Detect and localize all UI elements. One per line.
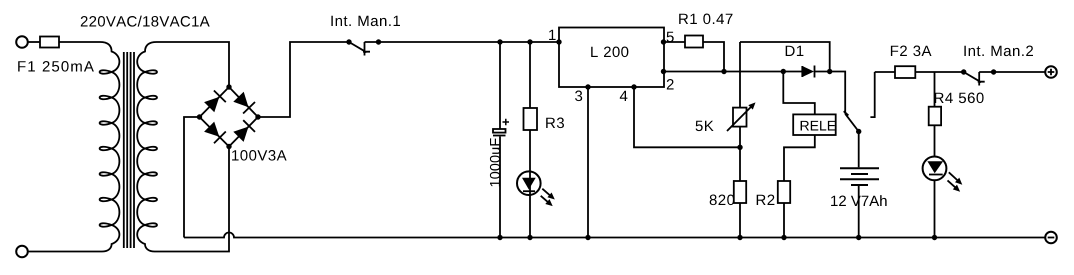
wire + transformer primary winding xyxy=(28,42,119,252)
resistor 820 xyxy=(734,181,746,203)
pin 3 xyxy=(585,84,590,89)
node D1 cathode xyxy=(827,69,832,74)
wire battery to rail xyxy=(858,185,860,238)
wire pot branch vertical xyxy=(739,42,741,147)
label Int. Man.2 xyxy=(964,46,1033,57)
transformer core xyxy=(124,52,134,248)
LED DL1 xyxy=(517,171,541,195)
wire capacitor branch xyxy=(499,42,501,129)
battery 12V7Ah xyxy=(840,168,879,185)
label R2 xyxy=(757,195,775,206)
relay switch blade xyxy=(844,111,859,131)
wire pin4 down and right xyxy=(634,87,740,147)
label F1 250mA xyxy=(18,61,94,72)
wire to battery xyxy=(858,132,860,168)
node R4 branch bottom xyxy=(932,235,937,240)
node relay common xyxy=(856,129,861,134)
label R1 0.47 xyxy=(679,14,732,25)
wire R3 branch xyxy=(529,42,531,238)
resistor R2 xyxy=(778,181,790,203)
output terminal + xyxy=(1045,66,1057,78)
relay switch right contact xyxy=(870,72,874,117)
label 5K xyxy=(696,121,714,131)
wire R4 to LED xyxy=(934,125,936,156)
node R2 bottom xyxy=(781,235,786,240)
bridge rectifier diamond wires xyxy=(200,87,259,147)
node bridge left xyxy=(197,114,202,119)
bridge diode 4 (bottom-right) xyxy=(233,127,248,142)
node R3 bottom xyxy=(527,235,532,240)
LED DL1 arrows xyxy=(541,189,552,204)
pin 5 xyxy=(661,39,666,44)
node bridge bottom xyxy=(226,144,231,149)
wire 820 branch xyxy=(739,147,741,237)
input terminal bottom xyxy=(16,246,28,258)
switch Int. Man.2 xyxy=(961,69,966,74)
pin 4 xyxy=(631,84,636,89)
node R3 top xyxy=(527,39,532,44)
label R3 xyxy=(546,118,564,129)
wire pin3 down to rail xyxy=(587,87,589,238)
node battery bottom xyxy=(856,235,861,240)
label F2 3A xyxy=(891,46,932,57)
label 1000uF (rotated) xyxy=(490,138,500,186)
potentiometer 5K xyxy=(733,108,747,127)
wire R1 to pin2 node xyxy=(703,42,724,72)
wire relay coil top xyxy=(783,72,815,115)
regulator U1 L200 xyxy=(559,28,664,88)
label D1 xyxy=(786,46,804,56)
label 100V3A xyxy=(232,150,287,161)
wire D1 cathode to relay switch left contact xyxy=(830,72,846,114)
wire top rail to L200 xyxy=(365,41,560,43)
wire pin2 line xyxy=(664,71,784,73)
pin 1 xyxy=(556,39,561,44)
node bridge right xyxy=(255,114,260,119)
label R4 560 xyxy=(935,93,984,104)
node 820 bottom xyxy=(737,235,742,240)
LED DL2 xyxy=(923,157,947,181)
fuse F2 xyxy=(895,66,915,78)
negative bottom rail with hop over AC wire xyxy=(184,233,1045,238)
capacitor C1 1000uF plates xyxy=(493,129,506,133)
node capacitor top xyxy=(497,39,502,44)
fuse F1 xyxy=(40,37,59,48)
wire to + terminal xyxy=(979,71,1045,73)
output terminal - xyxy=(1045,232,1057,244)
pin 2 xyxy=(661,69,666,74)
relay RELE box xyxy=(793,114,836,135)
wire pot top rail xyxy=(740,42,830,72)
wire LED to rail xyxy=(934,180,936,237)
diode D1 xyxy=(783,66,829,78)
wire bridge right corner up to positive rail xyxy=(258,42,349,117)
bridge diode 3 (left-bottom) xyxy=(204,122,219,137)
wire capacitor to rail xyxy=(499,137,501,238)
label 220VAC/18VAC1A xyxy=(81,16,210,27)
bridge diode 1 (left-top) xyxy=(204,97,219,112)
node bridge top xyxy=(226,84,231,89)
resistor R3 xyxy=(524,108,538,130)
resistor R1 xyxy=(685,36,703,48)
input terminal top xyxy=(16,36,28,48)
wire bridge left corner to negative rail xyxy=(184,117,200,238)
transformer secondary winding + wires to bridge xyxy=(137,42,229,252)
label Int. Man.1 xyxy=(331,16,400,26)
bridge diode 2 (top-right) xyxy=(233,92,248,107)
wire pin5 to R1 xyxy=(664,41,686,43)
node capacitor bottom xyxy=(497,235,502,240)
wire F2 to switch 2 xyxy=(915,71,963,73)
wire R4 branch xyxy=(934,72,936,107)
node R1/pin2 junction xyxy=(721,69,726,74)
resistor R4 xyxy=(929,107,941,126)
label 820 xyxy=(710,195,735,206)
capacitor + sign xyxy=(503,119,510,126)
node pot/820/pin4 junction xyxy=(737,145,742,150)
node pin3 bottom xyxy=(585,235,590,240)
label 12 V7Ah xyxy=(831,195,887,206)
wire input to fuse xyxy=(28,41,40,43)
wire relay coil bottom to R2 xyxy=(784,135,815,238)
wire relay right contact to F2 xyxy=(875,71,895,73)
node D1 anode xyxy=(781,69,786,74)
switch Int. Man.1 xyxy=(346,39,351,44)
LED DL2 arrows xyxy=(948,172,960,189)
